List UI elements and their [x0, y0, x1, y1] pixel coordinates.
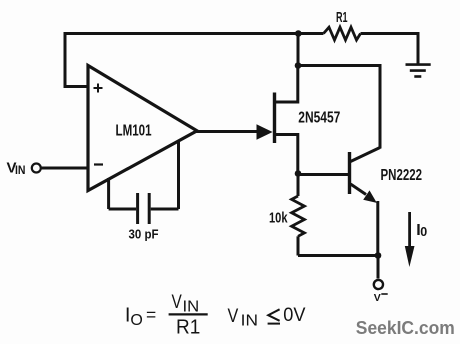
node junction source/base	[295, 170, 302, 177]
capacitor C1 right pin	[151, 140, 179, 209]
svg-text:10k: 10k	[269, 210, 288, 227]
Q1 drain lead	[275, 66, 298, 103]
capacitor C1 left pin	[109, 178, 137, 209]
resistor R1	[324, 27, 361, 40]
capacitor C1 plates	[138, 193, 150, 224]
svg-text:R1: R1	[336, 10, 348, 26]
svg-text:SeekIC.com: SeekIC.com	[356, 317, 455, 338]
wire to V- terminal	[377, 256, 380, 279]
svg-text:R1: R1	[176, 316, 200, 338]
formula VIN <= 0V	[228, 305, 306, 329]
resistor R2 10k	[297, 174, 300, 197]
svg-text:V: V	[228, 306, 239, 327]
svg-text:30 pF: 30 pF	[129, 228, 159, 242]
label PN2222	[381, 167, 423, 184]
Q2 emitter lead with arrow	[351, 184, 367, 195]
wire drain node to collector	[298, 66, 380, 149]
formula IO = VIN / R1	[125, 292, 208, 338]
node junction drain	[295, 62, 302, 69]
wire R1 to ground	[417, 32, 420, 64]
terminal V-	[374, 280, 383, 289]
svg-text:V: V	[374, 292, 381, 304]
op-amp plus input mark	[94, 84, 103, 93]
op-amp minus input mark	[94, 163, 103, 165]
arrow into JFET gate	[257, 124, 273, 139]
arrow IO output current	[408, 212, 411, 250]
label VIN	[7, 160, 26, 178]
op-amp U1 LM101	[88, 66, 197, 191]
svg-text:0: 0	[420, 225, 427, 239]
node junction top	[295, 30, 302, 37]
svg-text:IN: IN	[241, 312, 258, 329]
label 10k	[269, 210, 288, 227]
svg-text:PN2222: PN2222	[381, 167, 423, 184]
svg-text:2N5457: 2N5457	[298, 110, 340, 127]
watermark SeekIC.com	[356, 317, 455, 338]
svg-text:O: O	[130, 312, 142, 329]
svg-text:V: V	[172, 292, 183, 313]
label R1	[336, 10, 348, 26]
Q1 source lead	[275, 135, 298, 174]
wire top feedback	[64, 32, 419, 35]
transistor Q2 PN2222 base bar	[348, 152, 351, 194]
wire left feedback vertical	[64, 32, 89, 87]
svg-text:LM101: LM101	[116, 123, 152, 140]
label 2N5457	[298, 110, 340, 127]
label V-	[374, 292, 388, 304]
Q2 base lead	[298, 173, 349, 176]
wire op-amp output	[196, 130, 258, 133]
wire emitter down	[376, 201, 379, 256]
Q2 collector lead	[351, 148, 381, 162]
svg-text:0V: 0V	[283, 305, 306, 326]
terminal VIN	[32, 164, 41, 173]
svg-text:IN: IN	[15, 163, 26, 177]
wire top node to drain node	[297, 34, 300, 66]
label 30 pF	[129, 228, 159, 242]
ground	[406, 65, 431, 77]
svg-text:=: =	[146, 305, 156, 325]
wire bottom	[298, 254, 378, 257]
label I0	[416, 222, 427, 239]
node junction bottom	[375, 252, 382, 259]
wire VIN to inverting input	[41, 167, 88, 170]
transistor Q1 2N5457 JFET body bar	[273, 93, 276, 144]
label LM101	[116, 123, 152, 140]
svg-text:IN: IN	[183, 298, 200, 315]
